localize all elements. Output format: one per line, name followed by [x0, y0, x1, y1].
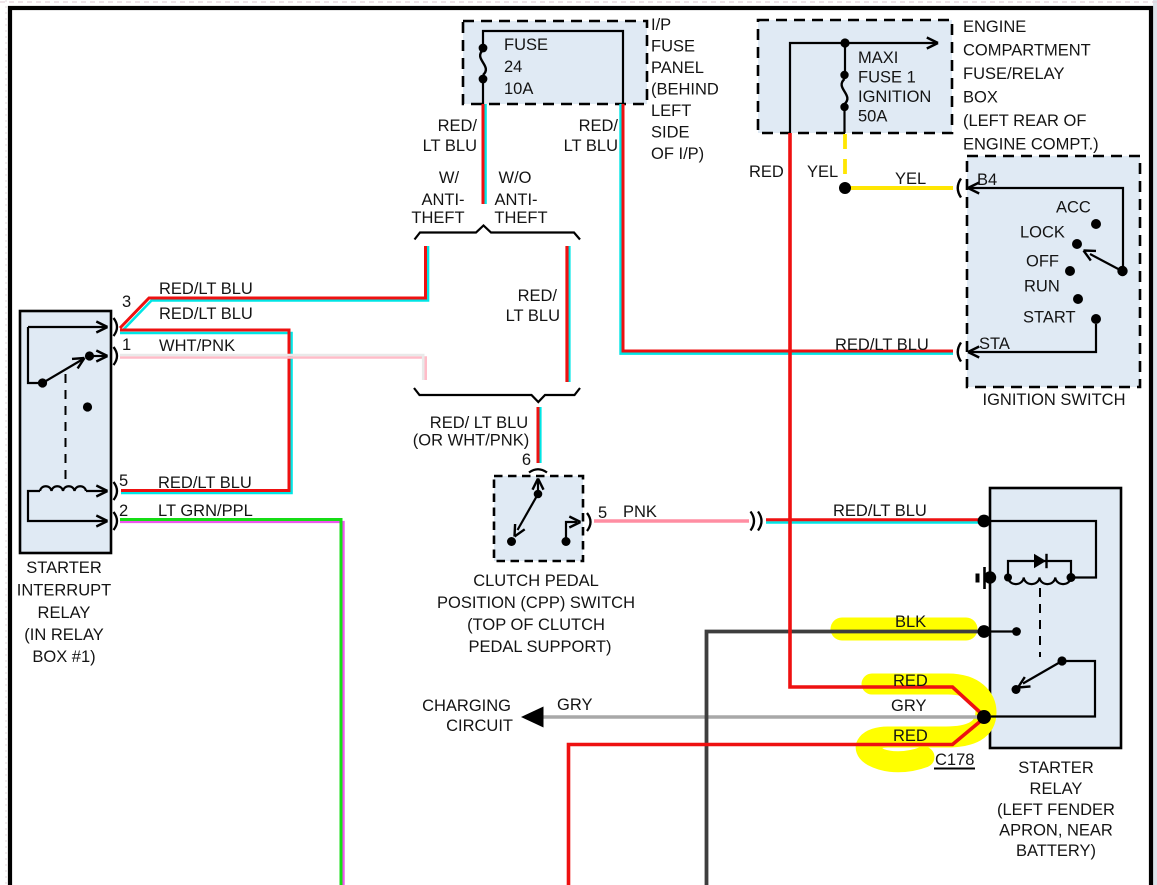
svg-text:LT GRN/PPL: LT GRN/PPL — [158, 502, 253, 520]
svg-text:GRY: GRY — [891, 697, 926, 715]
relay switch arm with arrowhead — [43, 359, 85, 384]
svg-text:RED: RED — [893, 672, 928, 690]
ground stub at coil — [983, 567, 986, 589]
svg-text:FUSE: FUSE — [504, 36, 548, 54]
wire: RED/LT BLU (OR WHT/PNK) to CPP pin 6 — [539, 407, 541, 463]
svg-text:FUSE/RELAY: FUSE/RELAY — [963, 65, 1064, 83]
rotor pivot node — [1117, 266, 1127, 276]
maxi fuse top node — [840, 71, 848, 79]
node C178 junction — [977, 710, 991, 724]
svg-text:24: 24 — [504, 58, 522, 76]
svg-text:STA: STA — [979, 335, 1010, 353]
svg-text:CIRCUIT: CIRCUIT — [446, 717, 513, 735]
CPP pivot node — [534, 490, 543, 499]
starter interrupt relay internal: pin 3 wire with arrow — [28, 326, 105, 328]
svg-text:LT BLU: LT BLU — [423, 137, 477, 155]
page edge strip right — [1153, 0, 1157, 885]
floating contact node — [83, 402, 92, 411]
svg-text:RED/LT BLU: RED/LT BLU — [158, 474, 252, 492]
inline connector pair on PNK wire — [751, 512, 762, 531]
svg-text:BOX #1): BOX #1) — [32, 648, 95, 666]
svg-text:ANTI-: ANTI- — [421, 191, 464, 209]
maxi fuse element — [844, 47, 846, 71]
svg-text:IGNITION SWITCH: IGNITION SWITCH — [983, 391, 1126, 409]
starter relay coil feed wire — [986, 521, 1096, 578]
faint page tear dotted line top — [0, 1, 1157, 3]
relay coil — [40, 486, 86, 491]
svg-text:B4: B4 — [977, 171, 997, 189]
CPP switch arm with arrowhead — [518, 494, 539, 530]
ignition STA internal wire with exit arrow — [968, 324, 1096, 352]
svg-text:WHT/PNK: WHT/PNK — [159, 337, 235, 355]
svg-text:W/O: W/O — [499, 169, 532, 187]
connector pin 3 — [114, 318, 118, 336]
ignition switch box — [967, 156, 1140, 387]
svg-text:FUSE: FUSE — [651, 38, 695, 56]
wire: RED main from engine box to starter relay — [790, 133, 983, 715]
svg-text:RED: RED — [749, 163, 784, 181]
svg-text:6: 6 — [522, 451, 531, 469]
svg-text:ENGINE: ENGINE — [963, 18, 1026, 36]
svg-text:ENGINE COMPT.): ENGINE COMPT.) — [963, 136, 1099, 154]
svg-text:5: 5 — [598, 504, 607, 522]
coil wire to pin 5 with arrow — [86, 490, 105, 492]
svg-text:5: 5 — [119, 472, 128, 490]
highlighter tail blob below C178 — [874, 752, 921, 761]
maxi fuse tap node — [840, 38, 849, 47]
ignition rotor arm with arrowhead — [1090, 254, 1122, 271]
svg-text:STARTER: STARTER — [1018, 759, 1094, 777]
connector pin 5 — [114, 482, 118, 500]
svg-text:CLUTCH PEDAL: CLUTCH PEDAL — [473, 572, 599, 590]
svg-text:(OR WHT/PNK): (OR WHT/PNK) — [413, 432, 529, 450]
svg-text:(LEFT REAR OF: (LEFT REAR OF — [963, 112, 1086, 130]
svg-text:COMPARTMENT: COMPARTMENT — [963, 42, 1091, 60]
svg-text:OFF: OFF — [1026, 253, 1059, 271]
svg-text:LT BLU: LT BLU — [564, 137, 618, 155]
svg-text:FUSE 1: FUSE 1 — [858, 69, 916, 87]
brace merge (lower) — [414, 388, 580, 402]
svg-text:I/P: I/P — [651, 16, 671, 34]
fuse F24 element — [480, 50, 486, 75]
engine compartment fuse/relay box — [758, 20, 952, 133]
svg-text:YEL: YEL — [807, 163, 838, 181]
wire: pin 3 RED/LT BLU up to W/ ANTI-THEFT brace — [123, 246, 429, 331]
CPP up arrow — [537, 480, 539, 494]
relay switch arm with arrowhead — [1023, 661, 1062, 684]
ignition B4 internal wire with entry arrow — [968, 188, 1123, 269]
svg-text:CHARGING: CHARGING — [422, 697, 511, 715]
svg-text:(TOP OF CLUTCH: (TOP OF CLUTCH — [467, 616, 605, 634]
wire: YEL dashed from maxi fuse — [843, 134, 847, 176]
relay moving contact node — [1012, 685, 1021, 694]
brace anti-theft options (upper) — [415, 226, 581, 240]
wire: pin 2 LT GRN/PPL down page — [120, 522, 344, 885]
relay switch pivot node — [38, 378, 47, 387]
svg-text:1: 1 — [122, 336, 131, 354]
svg-text:RED/LT BLU: RED/LT BLU — [835, 336, 929, 354]
svg-text:C178: C178 — [935, 751, 974, 769]
svg-text:(LEFT FENDER: (LEFT FENDER — [997, 801, 1115, 819]
wire: W/O ANTI-THEFT branch RED/LT BLU vertical — [568, 246, 570, 382]
starter interrupt relay box — [20, 311, 111, 553]
svg-text:10A: 10A — [504, 80, 533, 98]
fuse F24 top node — [479, 44, 488, 53]
node RED/LT BLU pin — [978, 515, 991, 528]
coil right node — [1067, 573, 1076, 582]
svg-text:3: 3 — [122, 293, 131, 311]
clutch pedal position switch box — [494, 476, 583, 561]
highlighter mark around RED/GRY/RED junction and C178 — [866, 684, 986, 762]
svg-text:LT BLU: LT BLU — [506, 307, 560, 325]
wire: RED/LT BLU from inline connector to starter relay — [766, 521, 984, 524]
relay actuation dashed link — [65, 374, 67, 485]
svg-text:RED: RED — [893, 727, 928, 745]
svg-text:LOCK: LOCK — [1020, 224, 1065, 242]
node OFF — [1065, 266, 1075, 276]
charging circuit arrow — [521, 707, 544, 728]
junction dot YEL — [839, 182, 851, 194]
svg-text:2: 2 — [119, 502, 128, 520]
svg-text:MAXI: MAXI — [858, 49, 898, 67]
diode D1 — [1034, 554, 1046, 568]
CPP right contact node — [562, 537, 571, 546]
wire: CPP pin 5 PNK — [594, 519, 749, 522]
svg-text:START: START — [1023, 309, 1076, 327]
svg-text:BATTERY): BATTERY) — [1016, 842, 1096, 860]
svg-text:LEFT: LEFT — [651, 102, 691, 120]
I/P panel internal wire — [483, 31, 623, 104]
engine box internal wire with arrow — [790, 43, 936, 133]
svg-text:SIDE: SIDE — [651, 124, 690, 142]
svg-text:RELAY: RELAY — [38, 604, 91, 622]
connector CPP pin 5 — [587, 513, 591, 531]
svg-text:RED/: RED/ — [579, 117, 619, 135]
connector CPP pin 6 — [529, 469, 547, 472]
svg-text:ACC: ACC — [1056, 199, 1091, 217]
svg-text:PNK: PNK — [623, 503, 657, 521]
svg-text:THEFT: THEFT — [411, 209, 464, 227]
connector STA at ignition switch — [958, 343, 961, 362]
svg-text:50A: 50A — [858, 108, 887, 126]
highlighter mark over BLK wire — [842, 618, 966, 641]
svg-text:RED/ LT BLU: RED/ LT BLU — [430, 414, 528, 432]
wire: RED lower from starter relay down page — [569, 719, 984, 885]
CPP pin 5 wire with arrow — [566, 522, 577, 542]
node START — [1091, 314, 1101, 324]
svg-text:PANEL: PANEL — [651, 59, 704, 77]
svg-text:RED/LT BLU: RED/LT BLU — [159, 305, 253, 323]
wire: GRY to charging circuit — [532, 715, 984, 719]
pin 1 wire with arrow — [90, 355, 106, 357]
fuse F24 bottom node — [479, 75, 488, 84]
node RUN — [1073, 294, 1083, 304]
diode bypass loop — [1008, 561, 1071, 578]
CPP left contact node — [507, 537, 516, 546]
BLK pin internal stub — [984, 630, 1013, 632]
svg-text:RED/LT BLU: RED/LT BLU — [159, 280, 253, 298]
wire: fuse 24 left output RED/LT BLU vertical — [484, 104, 487, 204]
svg-text:RED/: RED/ — [518, 287, 558, 305]
svg-text:RED/: RED/ — [438, 117, 478, 135]
connector B4 at ignition switch — [958, 179, 961, 198]
starter relay coil (scallops down) — [1008, 578, 1071, 585]
starter relay box — [990, 488, 1121, 748]
svg-text:APRON, NEAR: APRON, NEAR — [999, 822, 1113, 840]
svg-text:PEDAL SUPPORT): PEDAL SUPPORT) — [468, 638, 611, 656]
svg-text:RUN: RUN — [1024, 278, 1060, 296]
svg-text:ANTI-: ANTI- — [494, 191, 537, 209]
svg-text:RELAY: RELAY — [1030, 780, 1083, 798]
svg-text:GRY: GRY — [557, 696, 592, 714]
svg-text:THEFT: THEFT — [494, 209, 547, 227]
wire: pin 3 to pin 5 RED/LT BLU loop — [120, 333, 292, 493]
svg-text:YEL: YEL — [895, 170, 926, 188]
svg-text:STARTER: STARTER — [26, 559, 102, 577]
wire: YEL solid to B4 — [846, 186, 953, 190]
I/P fuse panel box — [463, 21, 647, 104]
svg-text:POSITION (CPP) SWITCH: POSITION (CPP) SWITCH — [437, 594, 635, 612]
relay switch contact node — [85, 351, 94, 360]
svg-text:BOX: BOX — [963, 89, 998, 107]
svg-text:(IN RELAY: (IN RELAY — [24, 626, 103, 644]
coil wire to pin 2 with arrow — [28, 491, 105, 521]
wire: BLK to starter relay — [707, 632, 985, 885]
connector pin 2 — [114, 512, 118, 530]
svg-text:OF I/P): OF I/P) — [651, 145, 704, 163]
coil left node — [1004, 574, 1012, 582]
maxi fuse bottom node — [840, 103, 848, 111]
node ACC — [1091, 219, 1101, 229]
wire: fuse 24 right output RED/LT BLU down to STA — [621, 104, 953, 354]
relay switch fixed contact and loop to GRY pin — [1057, 656, 1066, 665]
svg-text:(BEHIND: (BEHIND — [651, 81, 719, 99]
wire: pin 1 WHT/PNK to lower brace — [120, 358, 426, 381]
connector pin 1 — [114, 347, 118, 365]
node BLK pin — [978, 625, 991, 638]
node ground pin — [984, 571, 996, 583]
node LOCK — [1072, 239, 1082, 249]
svg-text:RED/LT BLU: RED/LT BLU — [833, 502, 927, 520]
svg-text:BLK: BLK — [895, 613, 926, 631]
svg-text:W/: W/ — [439, 169, 460, 187]
svg-text:INTERRUPT: INTERRUPT — [17, 582, 111, 600]
svg-text:IGNITION: IGNITION — [858, 88, 931, 106]
faint page tear dotted line left — [5, 0, 7, 885]
BLK stub node — [1012, 627, 1021, 636]
relay actuation dashed link — [1039, 588, 1041, 657]
